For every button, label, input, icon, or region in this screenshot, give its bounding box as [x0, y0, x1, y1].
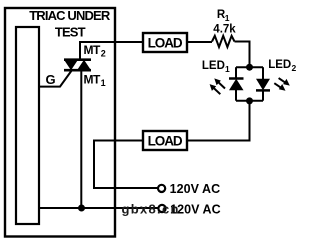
- label MT2: [84, 43, 106, 59]
- resistor R1 zigzag: [212, 36, 235, 47]
- test fixture outer box: [5, 8, 115, 237]
- LED2 emission arrow upper: [279, 78, 290, 86]
- AC terminal 1 circle: [158, 185, 165, 192]
- junction dot bottom: [246, 97, 253, 104]
- svg-text:1: 1: [225, 13, 230, 23]
- svg-text:gbx8.cn: gbx8.cn: [122, 202, 180, 217]
- svg-text:2: 2: [101, 49, 106, 59]
- label LED1: [202, 60, 230, 74]
- junction dot MT1/socket: [78, 205, 85, 212]
- LED2 branch wire top: [262, 67, 264, 79]
- svg-text:LED: LED: [202, 60, 225, 72]
- svg-text:TRIAC UNDER: TRIAC UNDER: [29, 8, 111, 23]
- LED1 emission arrow upper: [214, 78, 225, 88]
- triac left triangle: [64, 60, 78, 70]
- triac right triangle: [77, 60, 91, 70]
- LED1 cathode bar: [229, 77, 244, 80]
- label R1: [217, 9, 230, 23]
- AC terminal 2 circle: [158, 205, 165, 212]
- LED bridge top rail: [236, 66, 263, 68]
- test socket rectangle: [16, 27, 39, 224]
- triac under test: top bar MT2: [64, 58, 91, 61]
- wire LOAD1 to resistor: [187, 41, 212, 43]
- svg-text:TEST: TEST: [55, 24, 86, 39]
- label TRIAC UNDER TEST: [29, 8, 111, 40]
- wire LED bridge bottom to LOAD2: [187, 101, 250, 141]
- triac bottom bar MT1: [64, 69, 91, 72]
- LED1 emission arrow lower: [210, 84, 221, 94]
- LED2 cathode bar: [256, 89, 270, 92]
- LED2 triangle: [256, 79, 270, 91]
- junction dot top: [246, 64, 253, 71]
- svg-text:MT: MT: [84, 43, 101, 57]
- LED1 branch wire bottom: [235, 90, 237, 101]
- svg-text:G: G: [46, 72, 56, 87]
- load box 2: [143, 131, 187, 150]
- LED1 branch wire top: [235, 67, 237, 79]
- wire socket to AC terminal 2: [40, 207, 158, 209]
- load box 1: [143, 33, 187, 52]
- LED2 emission arrow lower: [274, 83, 285, 91]
- LED2 branch wire bottom: [262, 90, 264, 100]
- svg-text:MT: MT: [84, 72, 101, 86]
- wire MT2 to LOAD1: [80, 42, 143, 60]
- wire MT1 down: [80, 70, 82, 208]
- svg-text:120V AC: 120V AC: [170, 182, 221, 196]
- svg-text:1: 1: [101, 78, 106, 88]
- wire gate to socket: [40, 70, 72, 87]
- LED bridge bottom rail: [236, 100, 263, 102]
- label MT1: [84, 72, 106, 88]
- svg-text:4.7k: 4.7k: [213, 24, 236, 36]
- wire resistor to LED bridge top: [235, 42, 250, 68]
- wire LOAD2 to AC terminal 1: [94, 141, 158, 189]
- svg-text:LOAD: LOAD: [148, 134, 183, 149]
- svg-text:2: 2: [292, 63, 297, 73]
- LED1 triangle: [229, 79, 244, 91]
- svg-text:LOAD: LOAD: [148, 36, 183, 51]
- svg-text:LED: LED: [268, 59, 291, 71]
- svg-text:1: 1: [225, 64, 230, 74]
- label LED2: [268, 59, 296, 73]
